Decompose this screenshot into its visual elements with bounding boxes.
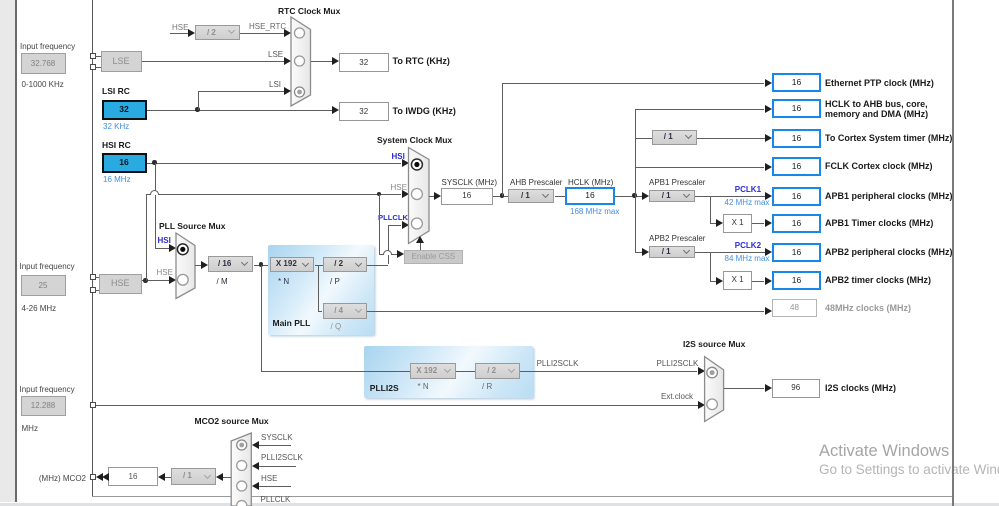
box APB2 timer value 16 [772, 271, 821, 290]
canvas bottom border [92, 496, 954, 497]
wire I2S mux output [724, 388, 765, 389]
dropdown APB1 / 1 [649, 190, 695, 203]
arrow HSE into system mux [402, 190, 409, 198]
arrow HSE into MCO2 mux [252, 482, 259, 490]
wire HSE vertical up [146, 194, 147, 281]
dropdown APB2 / 1 [649, 246, 695, 259]
wire enable css feed seg2 [392, 254, 397, 255]
dropdown X 192 (N) [270, 257, 314, 272]
wire /M to X192 [254, 265, 271, 266]
label PCLK2 [735, 241, 761, 250]
label APB2 peripheral clocks [825, 248, 953, 258]
label Ethernet PTP clock [825, 79, 934, 89]
input frequency value 12.288 [21, 396, 66, 416]
source LSI RC value 32 [102, 100, 147, 120]
wire APB1 out [695, 196, 765, 197]
box To RTC value 32 [339, 53, 389, 72]
arrow into FCLK box [765, 163, 772, 171]
arrow into SYSCLK box [434, 192, 441, 200]
arrow into APB2 periph box [765, 248, 772, 256]
box 48MHz value 48 [772, 299, 817, 318]
trunk vertical [635, 109, 636, 252]
wire APB1 timer branch vertical [710, 196, 711, 224]
wire 48MHz from /Q [367, 311, 765, 312]
arrow into ethernet box [765, 79, 772, 87]
label * N i2s [418, 382, 429, 391]
label APB1 Prescaler [649, 178, 705, 187]
wire HCLK out [615, 196, 643, 197]
arrow into APB1 prescaler [642, 192, 649, 200]
wire PLLCLK vertical [388, 225, 389, 264]
box APB1 periph value 16 [772, 187, 821, 206]
arrow PLLI2SCLK into I2S mux [698, 367, 705, 375]
dropdown / 4 (Q) disabled [323, 303, 367, 319]
mux I2S source Mux [700, 352, 729, 427]
LSE source block [101, 51, 142, 72]
label LSI RC [102, 87, 130, 96]
wire RTC mux output [311, 61, 333, 62]
wire branch FCLK [635, 167, 765, 168]
label SYSCLK (MHz) [442, 178, 498, 187]
arrow into APB1 timer box [765, 219, 772, 227]
stub OSC32_IN to LSE [95, 56, 101, 57]
arrow into cortex box [765, 134, 772, 142]
wire LSI horizontal [147, 110, 333, 111]
wire HSE stub [170, 33, 188, 34]
arrow into To IWDG box [332, 106, 339, 114]
range label 0-1000 KHz [22, 80, 64, 89]
label PLLI2SCLK stub [261, 453, 303, 462]
wire LSI branch horizontal [198, 91, 284, 92]
wire cortex to box [697, 138, 765, 139]
port I2S CKIN [90, 402, 96, 408]
wire branch HCLK AHB bus [635, 109, 765, 110]
wire APB2 out [695, 252, 765, 253]
button Enable CSS [404, 250, 464, 264]
box FCLK value 16 [772, 157, 821, 176]
port OSC_OUT [90, 287, 96, 293]
wire into PLLI2S N [261, 371, 410, 372]
label PLLI2SCLK at mux [657, 359, 699, 368]
hop css over PLLCLK [383, 250, 392, 255]
input frequency value 25 [21, 275, 66, 296]
arrow Ext.clock into I2S mux [698, 401, 705, 409]
panel PLLI2S [364, 346, 533, 398]
input frequency value 32.768 [21, 53, 66, 74]
port OSC_IN [90, 274, 96, 280]
dropdown / 16 (M) [208, 256, 254, 272]
arrow into /M [201, 261, 208, 269]
canvas left border [92, 0, 93, 496]
arrow LSI into mux [284, 87, 291, 95]
wire APB2 timer branch vertical [710, 252, 711, 281]
wire PLLCLK to system mux [388, 225, 402, 226]
junction dot after /M [259, 262, 264, 267]
hop HSE over HSI [150, 190, 159, 195]
port OSC32_OUT [90, 64, 96, 70]
box To IWDG value 32 [339, 102, 389, 121]
arrow into To RTC box [332, 57, 339, 65]
label / M [217, 277, 228, 286]
junction dot LSI [195, 107, 200, 112]
label HCLK to AHB [825, 100, 928, 119]
box HCLK AHB value 16 [772, 99, 821, 118]
double arrow MCO2 out a [96, 473, 103, 481]
label MCO2 source Mux [195, 417, 269, 426]
label To RTC (KHz) [393, 57, 450, 66]
label I2S clocks [825, 384, 896, 394]
label SYSCLK stub [261, 433, 293, 442]
source HSI RC value 16 [102, 153, 147, 173]
sidebar edge line [15, 0, 17, 502]
watermark Activate Windows [819, 442, 949, 461]
wire APB2 timer branch horizontal [710, 281, 717, 282]
label To IWDG (KHz) [393, 107, 456, 116]
box APB1 timer value 16 [772, 214, 821, 233]
label PLL Source Mux [159, 222, 225, 231]
wire enable css feed seg1 [379, 254, 383, 255]
wire PLLCLK from /P [367, 265, 388, 266]
wire HSE stub [259, 486, 292, 487]
arrow PLLI2SCLK into MCO2 mux [252, 462, 259, 470]
wire LSI branch vertical [198, 91, 199, 110]
double arrow MCO2 out b [102, 473, 109, 481]
input frequency label (I2S CKIN) [20, 385, 75, 394]
label (MHz) MCO2 [36, 474, 86, 483]
wire X1 to APB2 timer box [752, 281, 765, 282]
wire ethernet vertical [502, 83, 503, 196]
watermark Go to Settings [819, 462, 999, 477]
arrow HSI into PLL mux [169, 244, 176, 252]
label APB2 Prescaler [649, 234, 705, 243]
HSE source block [99, 274, 142, 294]
wire into /Q [318, 311, 322, 312]
label System Clock Mux [377, 136, 452, 145]
box APB2 periph value 16 [772, 243, 821, 262]
label LSE [268, 50, 283, 59]
junction dot HSE css [377, 192, 382, 197]
label 48MHz clocks [825, 304, 911, 313]
junction dot HSE [143, 278, 148, 283]
arrow HSE into PLL mux [169, 276, 176, 284]
wire HSI horizontal to system mux [147, 163, 401, 164]
dropdown /2 RTC [195, 25, 240, 41]
wire system mux output [429, 196, 435, 197]
wire ethernet horizontal [502, 83, 764, 84]
range label 4-26 MHz [22, 304, 57, 313]
label 32 KHz [103, 122, 129, 131]
wire PLLI2SCLK out [520, 371, 697, 372]
wire N-P branch vertical [318, 265, 319, 311]
label RTC Clock Mux [278, 7, 340, 16]
label PLLCLK stub [261, 495, 291, 504]
arrow HSE_RTC into mux [284, 29, 291, 37]
canvas right border [952, 0, 954, 506]
box X 1 APB2 [723, 271, 751, 290]
dropdown / 2 (R) disabled [475, 363, 520, 379]
arrow into MCO2 16 box [158, 473, 165, 481]
junction dot HSI [152, 160, 157, 165]
arrow into HCLK AHB box [765, 105, 772, 113]
wire PLLI2SCLK stub [259, 466, 297, 467]
box SYSCLK value 16 [441, 188, 493, 205]
arrow into 48MHz box [765, 307, 772, 315]
label PLLI2S [370, 384, 399, 393]
label HSI at system mux [392, 152, 405, 161]
mux RTC Clock Mux [287, 13, 315, 110]
label 84 MHz max [725, 254, 770, 263]
label Main PLL [273, 319, 311, 328]
wire SYSCLK stub [259, 445, 292, 446]
wire /1 to 16 box [165, 477, 171, 478]
dropdown AHB / 1 [508, 189, 554, 204]
dropdown X 192 (I2S N) disabled [410, 363, 456, 379]
label Ext.clock [661, 392, 693, 401]
wire AHB to HCLK [555, 196, 566, 197]
arrow HSE into /2 [188, 29, 195, 37]
label AHB Prescaler [510, 178, 562, 187]
wire HSE to system mux seg1 [146, 194, 150, 195]
box I2S value 96 [772, 379, 821, 398]
wire HSI to PLL mux [155, 248, 169, 249]
wire HSE to PLL mux [142, 280, 170, 281]
arrow into APB2 prescaler [642, 248, 649, 256]
label PCLK1 [735, 185, 761, 194]
wire branch cortex [635, 138, 652, 139]
label HSI RC [102, 141, 131, 150]
label HSE_RTC [249, 22, 286, 31]
label HSE stub [261, 474, 277, 483]
input frequency label (HSE) [20, 262, 75, 271]
label APB1 peripheral clocks [825, 192, 953, 202]
label LSI [269, 80, 281, 89]
mux System Clock Mux [404, 143, 434, 248]
dropdown / 2 (P) [323, 257, 367, 272]
wire HSE to system mux seg2 [159, 194, 401, 195]
arrow HSI into system mux [402, 159, 409, 167]
label HSE (rtc stub) [172, 23, 188, 32]
arrow into Enable CSS [397, 250, 404, 258]
wire Ext.clock [96, 405, 698, 406]
panel Main PLL [268, 245, 374, 335]
dropdown cortex / 1 [652, 130, 697, 144]
wire vertical to PLLI2S [261, 265, 262, 372]
left toolbar sidebar [0, 0, 15, 502]
wire HSI vertical [155, 163, 156, 249]
wire HSE_RTC [240, 33, 284, 34]
arrow PLLCLK into system mux [402, 221, 409, 229]
port OSC32_IN [90, 53, 96, 59]
junction dot SYSCLK [500, 193, 505, 198]
label APB2 timer clocks [825, 276, 931, 286]
box X 1 APB1 [723, 214, 751, 233]
arrow into X1 APB1 [716, 219, 723, 227]
stub OSC_OUT to HSE [95, 290, 100, 291]
input frequency label (LSE) [20, 42, 75, 51]
arrow LSE into mux [284, 57, 291, 65]
box cortex timer value 16 [772, 129, 821, 148]
port MCO2 [90, 474, 96, 480]
label I2S source Mux [683, 340, 745, 349]
wire SYSCLK to AHB [493, 196, 509, 197]
junction dot HCLK trunk [632, 193, 637, 198]
wire LSE to RTC mux [142, 61, 284, 62]
label HSI at PLL mux [158, 236, 171, 245]
label HSE at PLL mux [157, 268, 173, 277]
wire enable css feed vertical [379, 194, 380, 254]
label / R [482, 382, 492, 391]
arrow MCO2 into /1 [216, 473, 223, 481]
arrow into I2S box [765, 384, 772, 392]
wire N to P [315, 265, 323, 266]
label FCLK Cortex clock [825, 162, 933, 172]
wire branch APB2 [635, 252, 643, 253]
wire X1 to APB1 timer box [752, 223, 765, 224]
label / P [330, 277, 340, 286]
mux MCO2 source Mux [228, 430, 255, 506]
box Ethernet value 16 [772, 73, 821, 92]
arrow Enable CSS into mux [416, 236, 424, 243]
label 42 MHz max [725, 198, 770, 207]
stub OSC32_OUT to LSE [95, 67, 101, 68]
arrow into X1 APB2 [716, 277, 723, 285]
stub OSC_IN to HSE [95, 277, 100, 278]
wire Enable CSS up [420, 243, 421, 250]
dropdown MCO2 / 1 disabled [171, 468, 216, 484]
label / Q [331, 322, 342, 331]
arrow SYSCLK into MCO2 mux [252, 441, 259, 449]
box MCO2 value 16 [108, 467, 158, 486]
label 16 MHz [103, 175, 131, 184]
wire i2s N to R [456, 371, 476, 372]
label 168 MHz max [570, 207, 619, 216]
mux PLL Source Mux [172, 229, 200, 304]
range label MHz [22, 424, 38, 433]
label * N [278, 277, 289, 286]
wire MCO2 output [223, 477, 231, 478]
arrow into APB2 timer box [765, 277, 772, 285]
label PLLI2SCLK mid [537, 359, 579, 368]
wire APB1 timer branch horizontal [710, 223, 717, 224]
label To Cortex System timer [825, 134, 952, 144]
window bottom strip [0, 503, 999, 506]
label HSE at system mux [391, 183, 407, 192]
label PLLCLK [378, 213, 408, 222]
box HCLK value 16 [565, 187, 615, 204]
label APB1 Timer clocks [825, 219, 933, 229]
label HCLK (MHz) [568, 178, 613, 187]
arrow into APB1 periph box [765, 192, 772, 200]
wire PLL mux output [195, 265, 201, 266]
